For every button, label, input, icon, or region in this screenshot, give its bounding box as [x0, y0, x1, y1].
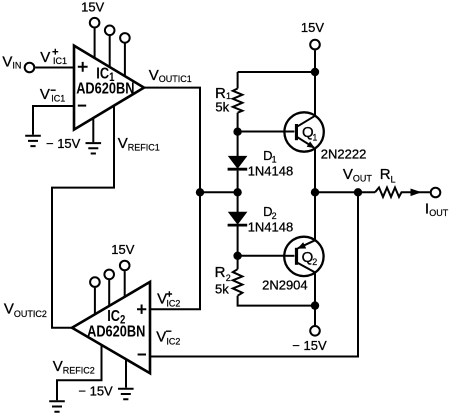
svg-text:R: R	[215, 264, 226, 281]
svg-text:REFIC2: REFIC2	[63, 365, 95, 375]
svg-text:IC1: IC1	[51, 94, 65, 104]
svg-text:V: V	[40, 49, 50, 66]
svg-text:V: V	[149, 67, 159, 84]
svg-text:REFIC1: REFIC1	[128, 142, 160, 152]
svg-text:1: 1	[312, 133, 317, 143]
svg-text:− 15V: − 15V	[46, 136, 81, 151]
svg-text:2N2904: 2N2904	[262, 278, 308, 293]
svg-text:V: V	[53, 358, 63, 375]
svg-text:L: L	[391, 174, 396, 184]
svg-text:OUTIC1: OUTIC1	[159, 74, 192, 84]
svg-text:1N4148: 1N4148	[248, 220, 294, 235]
svg-text:5k: 5k	[215, 99, 229, 114]
svg-text:2N2222: 2N2222	[321, 146, 367, 161]
svg-text:R: R	[380, 166, 391, 183]
svg-text:− 15V: − 15V	[78, 383, 113, 398]
svg-text:− 15V: − 15V	[292, 338, 327, 353]
svg-text:AD620BN: AD620BN	[87, 323, 145, 341]
svg-text:AD620BN: AD620BN	[76, 80, 134, 98]
svg-text:V: V	[118, 135, 128, 152]
svg-text:OUTIC2: OUTIC2	[14, 309, 47, 319]
svg-text:IC2: IC2	[166, 336, 180, 346]
svg-text:V: V	[2, 53, 12, 70]
svg-text:V: V	[343, 166, 353, 183]
svg-text:15V: 15V	[301, 20, 324, 35]
svg-text:IN: IN	[12, 61, 21, 71]
svg-text:5k: 5k	[215, 281, 229, 296]
svg-text:1N4148: 1N4148	[248, 164, 294, 179]
svg-text:2: 2	[312, 257, 317, 267]
svg-text:IC2: IC2	[166, 298, 180, 308]
svg-text:OUT: OUT	[353, 174, 373, 184]
svg-text:15V: 15V	[111, 242, 134, 257]
svg-text:15V: 15V	[81, 0, 104, 14]
svg-text:IC1: IC1	[53, 56, 67, 66]
svg-text:V: V	[40, 86, 50, 103]
svg-text:OUT: OUT	[429, 208, 449, 218]
svg-text:V: V	[4, 301, 14, 318]
svg-text:V: V	[156, 329, 166, 346]
